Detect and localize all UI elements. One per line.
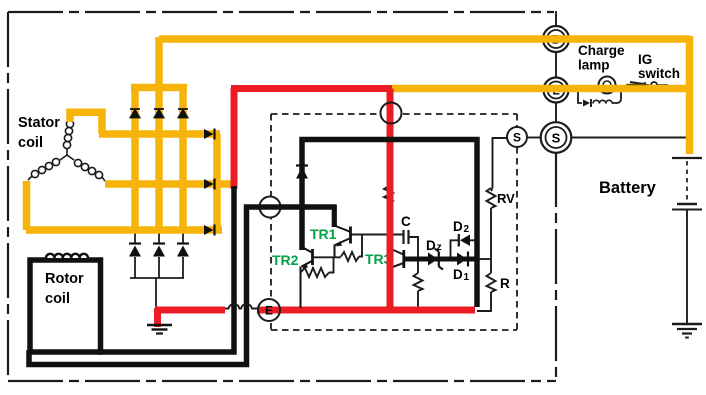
resistor below C	[414, 273, 423, 291]
wire resistor up to base line	[329, 257, 334, 272]
wire F to TR1 collector	[332, 205, 337, 228]
zener diode Dz	[428, 249, 443, 270]
svg-text:Stator: Stator	[18, 115, 60, 131]
field flyback diode on box left edge	[296, 166, 308, 179]
wire R to ground rail	[477, 292, 491, 311]
svg-text:R: R	[500, 276, 510, 291]
capacitor C plates	[404, 230, 409, 244]
terminal B	[543, 26, 569, 52]
wire ground rail right section	[257, 307, 475, 314]
resistor RV	[487, 188, 496, 208]
svg-text:D: D	[426, 238, 436, 253]
wire B to L	[555, 52, 557, 78]
rotor coil winding bumps	[46, 254, 88, 258]
wire stator top phase to rectifier	[70, 112, 102, 134]
transistor TR3 collector/emitter diagonals	[390, 249, 404, 255]
charge lamp shunt diode	[583, 100, 590, 107]
resistor R	[487, 273, 496, 292]
wire bus to ground	[155, 278, 157, 307]
wire S terminal to battery sense line	[571, 137, 688, 139]
battery internal dashed link	[686, 161, 688, 202]
wire TR2 base line	[313, 256, 342, 258]
transistor TR2	[301, 247, 313, 309]
svg-text:TR1: TR1	[310, 226, 337, 242]
RED WIRES	[155, 88, 475, 327]
svg-text:lamp: lamp	[578, 58, 610, 73]
wire rectifier column 1	[131, 87, 139, 231]
battery ground symbol	[672, 324, 702, 338]
wire rotor feed vertical (red)	[231, 88, 238, 189]
battery negative plates	[677, 203, 697, 206]
wire border to B terminal	[555, 11, 557, 27]
hop over rotor leads on ground line	[225, 304, 257, 309]
wire rotor inner lead	[98, 186, 234, 352]
wire resistor up to TR1 base line	[359, 235, 362, 257]
wire stator left phase drop	[23, 181, 31, 230]
svg-text:Charge: Charge	[578, 43, 625, 58]
terminal S (regulator)	[507, 127, 527, 147]
wire L line red section	[231, 85, 392, 92]
svg-text:Battery: Battery	[599, 179, 657, 197]
capacitor C right lead down to resistor	[409, 237, 419, 273]
wire rectifier column 2	[155, 37, 163, 231]
rectifier negative bus	[130, 277, 184, 279]
IG switch symbol	[626, 84, 649, 86]
charge lamp bracket right	[612, 89, 621, 103]
wire IG/L line	[392, 85, 690, 93]
stator coil top phase winding	[63, 120, 73, 155]
charge lamp bulb	[599, 77, 616, 94]
svg-text:1: 1	[464, 272, 470, 283]
wire RV to divider node	[491, 188, 493, 273]
wire divider node to D1 node	[478, 258, 491, 260]
stator coil left phase winding	[28, 155, 67, 180]
regulator dashed box	[271, 114, 517, 330]
svg-text:S: S	[552, 131, 561, 146]
wire rotor outer lead / F wire	[29, 207, 336, 365]
diode D1	[457, 252, 468, 267]
wire rectifier bar 3 (trio output)	[105, 180, 233, 188]
svg-text:z: z	[437, 241, 442, 253]
charge lamp shunt coil	[593, 100, 612, 103]
resistor on regulator input line (under red)	[384, 183, 393, 207]
svg-text:E: E	[265, 304, 273, 318]
svg-text:coil: coil	[45, 291, 70, 307]
upper rectifier diode marks	[130, 109, 188, 118]
diode D2	[451, 234, 475, 257]
IG switch mark over wire	[627, 84, 646, 86]
svg-text:Rotor: Rotor	[45, 271, 84, 287]
svg-text:switch: switch	[638, 66, 680, 81]
stator coil right phase winding	[67, 155, 105, 181]
terminal F	[260, 197, 281, 218]
thick sensing box (left edge, top edge, right edge)	[302, 140, 477, 308]
wire diode trio column	[213, 134, 221, 230]
charge lamp bracket left	[578, 89, 582, 103]
white masks under terminals on dashed lines	[258, 103, 402, 322]
transistor TR3 bar	[402, 250, 405, 268]
svg-text:coil: coil	[18, 135, 43, 151]
wire rectifier bar 4 (bottom)	[26, 226, 222, 234]
resistor between TR2 base and TR1 base	[341, 252, 359, 261]
wire TR1 base to capacitor C	[351, 234, 403, 236]
wire L to S	[555, 102, 557, 162]
svg-text:C: C	[401, 214, 411, 229]
diode trio marks	[204, 129, 215, 236]
rectifier phase stubs to lower diodes	[135, 230, 183, 278]
wire battery feed (right vertical)	[686, 36, 694, 154]
svg-text:TR2: TR2	[272, 252, 299, 268]
wire regulator input vertical	[387, 89, 394, 314]
battery positive plate	[672, 157, 702, 159]
svg-text:IG: IG	[638, 52, 652, 67]
svg-text:RV: RV	[497, 191, 515, 206]
rotor coil box	[30, 260, 101, 352]
wire B output (top)	[159, 35, 690, 43]
battery wire to ground	[686, 209, 688, 324]
wire single S to double S	[528, 137, 541, 139]
svg-text:2: 2	[464, 224, 470, 235]
wire rectifier top bar	[131, 84, 187, 92]
terminal E	[258, 299, 280, 321]
YELLOW WIRES	[26, 36, 690, 231]
lower rectifier diodes	[129, 244, 189, 257]
wire ground rail left section	[155, 307, 225, 314]
svg-text:D: D	[453, 219, 463, 234]
wire TR3 base thick line	[404, 257, 478, 262]
wire rectifier column 3	[179, 87, 187, 231]
wire rectifier bar 2	[99, 130, 220, 138]
terminal on regulator top edge	[381, 103, 402, 124]
svg-text:D: D	[453, 267, 463, 282]
component labels	[401, 191, 515, 291]
alternator housing dashed border	[8, 12, 556, 381]
rectifier ground symbol	[147, 325, 172, 334]
wire drop to rectifier ground	[154, 308, 161, 327]
transistor TR1	[335, 226, 351, 258]
terminal L	[544, 78, 569, 103]
terminal S (alternator)	[541, 122, 572, 153]
resistor TR2 base-emitter	[301, 268, 330, 277]
svg-text:S: S	[513, 131, 521, 145]
wire S terminal to RV divider	[493, 138, 509, 188]
